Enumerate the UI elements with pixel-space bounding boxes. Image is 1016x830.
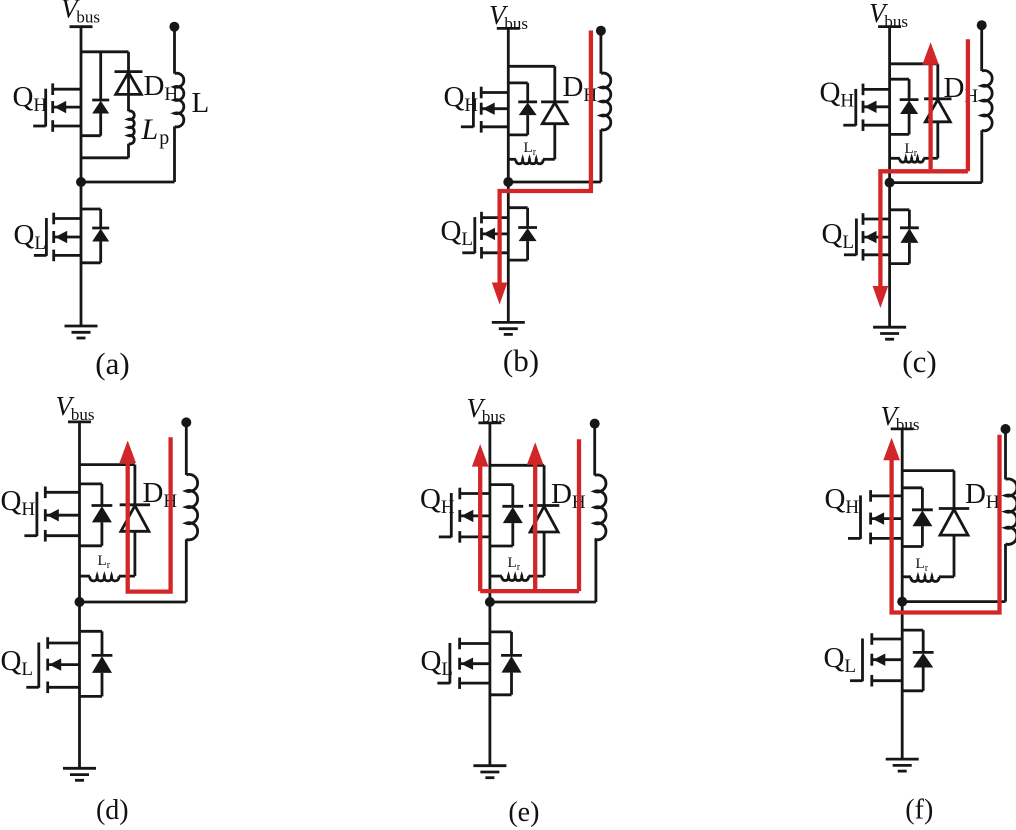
- svg-text:L: L: [441, 659, 453, 680]
- svg-text:D: D: [551, 478, 572, 510]
- svg-text:bus: bus: [884, 12, 908, 31]
- svg-text:H: H: [33, 95, 47, 116]
- svg-text:L: L: [461, 229, 473, 250]
- svg-text:H: H: [164, 84, 178, 105]
- svg-text:Q: Q: [1, 645, 22, 677]
- svg-text:(d): (d): [96, 795, 129, 826]
- svg-text:Q: Q: [825, 483, 846, 515]
- svg-text:r: r: [107, 560, 111, 571]
- svg-text:Q: Q: [441, 215, 462, 247]
- svg-text:(c): (c): [902, 344, 936, 379]
- svg-text:D: D: [563, 71, 584, 103]
- svg-text:D: D: [144, 70, 165, 102]
- svg-text:Q: Q: [1, 485, 22, 517]
- svg-text:L: L: [905, 141, 914, 157]
- svg-text:(b): (b): [503, 343, 539, 378]
- svg-text:L: L: [98, 553, 107, 569]
- svg-text:H: H: [845, 497, 859, 518]
- svg-text:L: L: [508, 555, 517, 571]
- svg-text:Q: Q: [822, 218, 843, 250]
- svg-text:Q: Q: [13, 81, 34, 113]
- svg-text:(a): (a): [95, 346, 129, 381]
- svg-text:(f): (f): [905, 795, 933, 826]
- svg-text:Q: Q: [820, 77, 841, 109]
- svg-text:L: L: [21, 659, 33, 680]
- svg-text:bus: bus: [71, 405, 95, 424]
- svg-text:Q: Q: [421, 645, 442, 677]
- svg-text:bus: bus: [482, 407, 506, 426]
- svg-text:Q: Q: [14, 219, 35, 251]
- svg-text:H: H: [840, 91, 854, 112]
- svg-text:r: r: [517, 562, 521, 573]
- svg-text:bus: bus: [504, 14, 528, 33]
- svg-text:L: L: [916, 556, 925, 572]
- svg-text:L: L: [842, 232, 854, 253]
- svg-text:H: H: [441, 497, 455, 518]
- svg-text:D: D: [944, 72, 965, 104]
- svg-text:bus: bus: [76, 8, 100, 27]
- svg-text:L: L: [34, 233, 46, 254]
- svg-text:D: D: [143, 477, 164, 509]
- svg-text:L: L: [192, 87, 210, 119]
- svg-text:L: L: [844, 656, 856, 677]
- svg-text:p: p: [159, 127, 169, 149]
- svg-text:bus: bus: [896, 415, 920, 434]
- svg-text:Q: Q: [420, 483, 441, 515]
- svg-text:Q: Q: [824, 642, 845, 674]
- svg-text:H: H: [464, 95, 478, 116]
- svg-text:H: H: [21, 499, 35, 520]
- svg-text:(e): (e): [508, 797, 539, 828]
- svg-text:Q: Q: [444, 81, 465, 113]
- svg-text:D: D: [965, 478, 986, 510]
- svg-text:L: L: [141, 113, 159, 146]
- svg-text:L: L: [524, 140, 533, 156]
- svg-text:r: r: [925, 563, 929, 574]
